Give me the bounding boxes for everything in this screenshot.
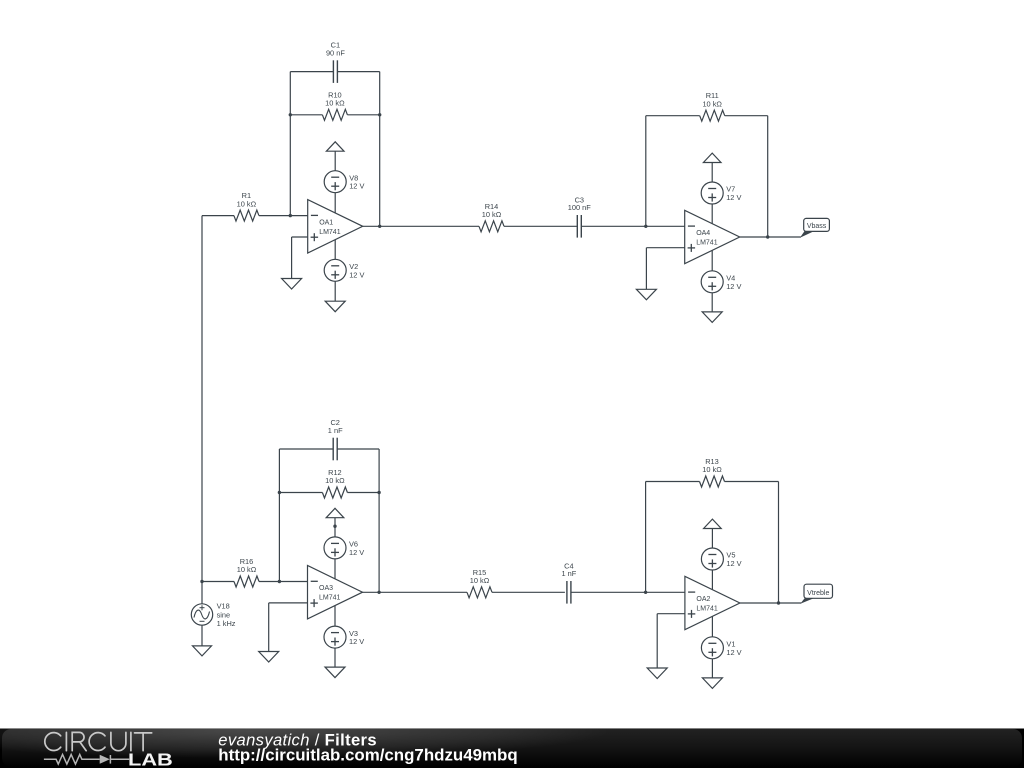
svg-text:12 V: 12 V [726,648,741,657]
svg-text:10 kΩ: 10 kΩ [237,565,257,574]
svg-text:LM741: LM741 [696,240,718,247]
svg-text:V18: V18 [217,602,230,611]
svg-text:12 V: 12 V [726,193,741,202]
svg-text:10 kΩ: 10 kΩ [470,576,490,585]
svg-text:1 nF: 1 nF [562,569,577,578]
svg-text:10 kΩ: 10 kΩ [325,476,345,485]
svg-text:OA1: OA1 [319,219,333,226]
svg-text:1 kHz: 1 kHz [217,619,236,628]
svg-text:90 nF: 90 nF [326,49,345,58]
svg-text:12 V: 12 V [726,559,741,568]
svg-text:OA3: OA3 [319,585,333,592]
svg-text:10 kΩ: 10 kΩ [702,465,722,474]
svg-text:LM741: LM741 [319,229,341,236]
svg-text:12 V: 12 V [349,548,364,557]
svg-text:10 kΩ: 10 kΩ [237,199,257,208]
svg-text:OA2: OA2 [696,596,710,603]
svg-text:http://circuitlab.com/cng7hdzu: http://circuitlab.com/cng7hdzu49mbq [218,746,517,765]
svg-text:Vbass: Vbass [807,223,827,230]
svg-text:OA4: OA4 [696,230,710,237]
svg-text:100 nF: 100 nF [568,203,591,212]
svg-text:10 kΩ: 10 kΩ [482,210,502,219]
svg-text:Vtreble: Vtreble [807,590,829,597]
svg-text:12 V: 12 V [726,282,741,291]
svg-text:12 V: 12 V [349,182,364,191]
svg-text:LM741: LM741 [696,606,718,613]
svg-text:12 V: 12 V [349,637,364,646]
svg-text:LAB: LAB [128,749,173,768]
svg-text:sine: sine [217,610,231,619]
svg-text:12 V: 12 V [349,270,364,279]
svg-text:1 nF: 1 nF [328,426,343,435]
svg-text:10 kΩ: 10 kΩ [325,99,345,108]
svg-text:10 kΩ: 10 kΩ [702,99,722,108]
svg-text:LM741: LM741 [319,595,341,602]
